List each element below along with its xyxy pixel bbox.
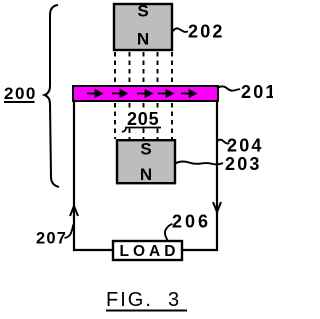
leader to label 201 bbox=[217, 86, 240, 90]
svg-text:FIG. 3: FIG. 3 bbox=[106, 289, 181, 311]
wire right bbox=[182, 101, 217, 250]
caption underline bbox=[106, 310, 187, 312]
svg-text:201: 201 bbox=[241, 82, 273, 102]
svg-text:206: 206 bbox=[172, 212, 211, 232]
arrow 4 bbox=[158, 93, 168, 95]
label 205 backing bbox=[126, 110, 161, 126]
arrow 3 bbox=[137, 93, 147, 95]
leader to label 202 bbox=[173, 28, 189, 32]
arrowhead down on right wire bbox=[213, 202, 221, 212]
leader to label 204 bbox=[218, 140, 230, 144]
leader to label 203 bbox=[175, 162, 223, 165]
svg-text:205: 205 bbox=[127, 109, 159, 129]
leader to label 207 bbox=[65, 225, 74, 239]
svg-text:S: S bbox=[140, 140, 151, 159]
load box 206 bbox=[113, 241, 182, 260]
current arrows inside bar bbox=[87, 90, 196, 96]
svg-text:LOAD: LOAD bbox=[120, 243, 180, 260]
field lines 205 (dashed flux lines, lower set) bbox=[115, 103, 172, 139]
leader to label 206 bbox=[165, 224, 172, 240]
arrow 2 bbox=[112, 93, 122, 95]
magnet 203 (lower moving magnet) bbox=[117, 140, 175, 185]
magnet 202 (upper stationary magnet) bbox=[114, 2, 172, 51]
svg-text:N: N bbox=[137, 30, 149, 49]
field lines 205 (dashed flux lines, upper set) bbox=[115, 52, 172, 86]
wire left (207) bbox=[74, 101, 113, 250]
arrow 1 bbox=[87, 93, 97, 95]
svg-text:200: 200 bbox=[4, 84, 37, 103]
svg-text:S: S bbox=[137, 2, 148, 21]
arrowhead up on left wire bbox=[70, 206, 78, 216]
svg-text:204: 204 bbox=[227, 136, 264, 156]
underline of 205 with hook bbox=[122, 128, 161, 133]
svg-text:N: N bbox=[140, 165, 152, 184]
svg-text:207: 207 bbox=[36, 230, 67, 248]
svg-text:203: 203 bbox=[225, 154, 262, 174]
svg-text:202: 202 bbox=[188, 22, 225, 42]
arrow 5 bbox=[181, 93, 191, 95]
brace for 200 bbox=[45, 5, 60, 187]
conductor bar 201 (magenta) bbox=[73, 86, 218, 101]
underline of 200 bbox=[4, 101, 35, 103]
